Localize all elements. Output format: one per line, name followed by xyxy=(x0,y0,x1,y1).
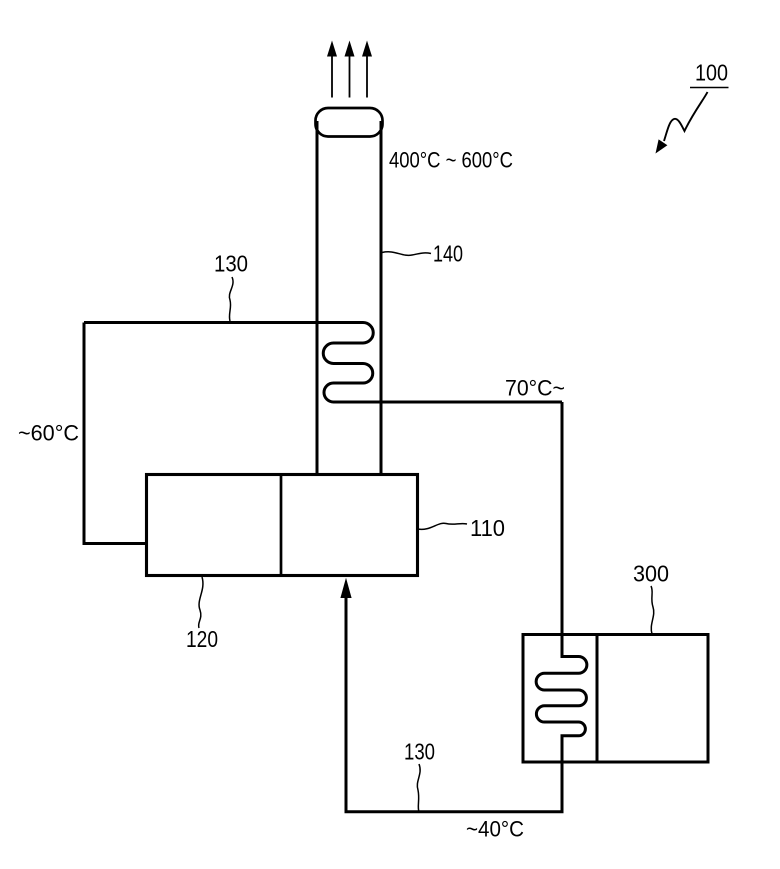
svg-text:110: 110 xyxy=(470,515,505,541)
svg-text:~60°C: ~60°C xyxy=(18,421,79,446)
boiler unit 110 xyxy=(147,475,418,576)
exhaust arrow 1 xyxy=(327,41,337,98)
exhaust arrow 2 xyxy=(345,41,355,98)
leader from box 110 bottom to 120 xyxy=(199,577,203,628)
svg-text:300: 300 xyxy=(633,561,669,587)
unit 300 box xyxy=(523,635,708,763)
chimney 140 right wall xyxy=(380,121,383,475)
svg-text:~40°C: ~40°C xyxy=(466,817,524,842)
label 100 underline xyxy=(690,87,729,89)
svg-text:130: 130 xyxy=(404,739,435,765)
exhaust arrow 3 xyxy=(362,41,372,98)
svg-text:400°C ~ 600°C: 400°C ~ 600°C xyxy=(389,148,513,173)
svg-text:100: 100 xyxy=(695,60,728,86)
svg-text:120: 120 xyxy=(186,626,218,652)
unit 300 internal divider xyxy=(596,635,599,763)
leader to 110 xyxy=(418,523,468,529)
leader from 300 to box xyxy=(651,586,654,634)
leader from 130 to bottom pipe xyxy=(417,764,420,812)
svg-text:140: 140 xyxy=(433,241,463,267)
stack cap (top of chimney 140) xyxy=(316,108,383,137)
chimney 140 left wall xyxy=(316,121,319,475)
leader from 130 to pipe xyxy=(229,277,233,321)
wire: left return pipe (~60C side) xyxy=(84,323,147,544)
svg-text:130: 130 xyxy=(214,251,248,277)
wire: hot pipe down to unit 300, coil inside 300, bottom run, arrow riser xyxy=(346,402,587,812)
heat-exchange coil 130 in chimney + pipe to condenser xyxy=(84,323,562,403)
leader to 140 xyxy=(382,252,431,256)
svg-text:70°C~: 70°C~ xyxy=(505,376,565,401)
boiler internal divider xyxy=(280,475,283,576)
label 100 wavy arrow xyxy=(664,92,708,141)
arrowhead into boiler 110 xyxy=(340,578,351,598)
